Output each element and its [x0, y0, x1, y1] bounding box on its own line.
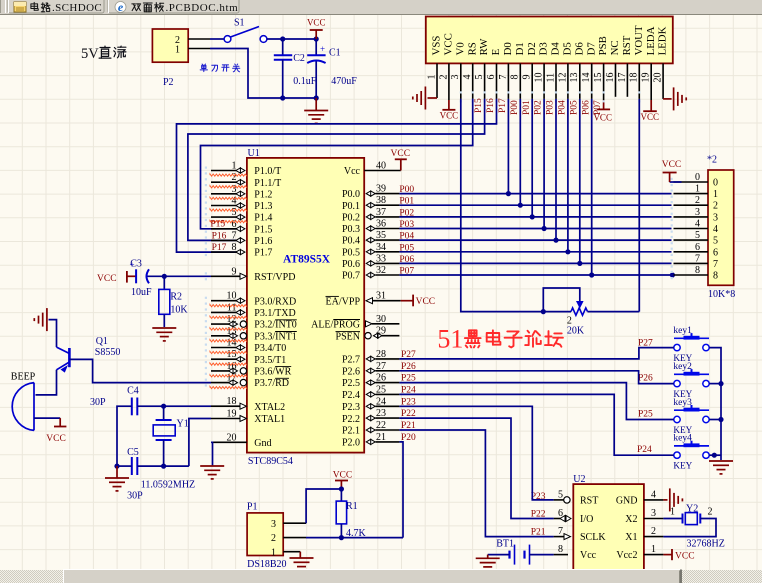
U2 pin 5 stub [554, 499, 568, 501]
junction pot left [541, 309, 546, 314]
svg-text:P0.1: P0.1 [342, 201, 360, 212]
svg-text:2: 2 [695, 195, 700, 206]
capacitor C5 [131, 457, 133, 475]
transistor Q1 S8550 [68, 348, 71, 367]
svg-text:10uF: 10uF [131, 287, 152, 298]
svg-text:RST/VPD: RST/VPD [254, 272, 295, 283]
svg-text:P07: P07 [399, 267, 414, 277]
svg-text:P0.2: P0.2 [342, 213, 360, 224]
svg-text:C1: C1 [329, 48, 341, 59]
LCD pin 19 stub [650, 63, 652, 100]
svg-text:4: 4 [695, 219, 700, 230]
svg-text:VSS: VSS [431, 36, 443, 56]
svg-text:10K: 10K [170, 305, 188, 316]
LCD pin 4 stub [472, 63, 474, 99]
svg-text:3: 3 [450, 75, 461, 80]
svg-text:P05: P05 [399, 243, 414, 253]
wire P07 row from U1 to resistor pack [399, 274, 671, 276]
potentiometer 20K zigzag [571, 308, 588, 315]
svg-text:26: 26 [376, 373, 386, 384]
svg-text:29: 29 [376, 326, 386, 337]
svg-text:Vcc2: Vcc2 [616, 550, 637, 561]
svg-text:P04: P04 [399, 232, 414, 242]
svg-text:P17: P17 [212, 243, 227, 253]
wire P2.1 down and right to cap bottoms [210, 49, 316, 99]
svg-text:key1: key1 [673, 326, 692, 336]
svg-text:P2.4: P2.4 [342, 390, 360, 401]
svg-text:24: 24 [376, 396, 386, 407]
tab2 label text [132, 3, 136, 5]
U2 pin 2 stub [644, 536, 664, 538]
svg-text:20: 20 [227, 432, 237, 443]
tab1 label text [33, 2, 35, 10]
U2 pin 7 stub [554, 536, 568, 538]
junction D5 on row [565, 249, 570, 254]
svg-text:P0.4: P0.4 [342, 236, 360, 247]
svg-text:P03: P03 [546, 100, 556, 115]
junction D2 on row [530, 214, 535, 219]
wire battery to U2 Vcc [530, 554, 554, 556]
svg-text:.PCBDOC.htm: .PCBDOC.htm [166, 2, 239, 14]
svg-text:P1.5: P1.5 [254, 224, 272, 235]
svg-text:5: 5 [474, 75, 485, 80]
wire VCC node to P1 pin3 [306, 489, 341, 523]
svg-text:5: 5 [695, 230, 700, 241]
P2 pin2 stub [188, 38, 210, 40]
wire ground to Q1 collector [49, 320, 57, 348]
svg-text:8: 8 [510, 75, 521, 80]
svg-text:EA/VPP: EA/VPP [326, 296, 361, 307]
svg-text:P17: P17 [498, 98, 508, 113]
U1 pin 18 stub [211, 405, 240, 407]
svg-text:P3.0/RXD: P3.0/RXD [254, 296, 296, 307]
U2 RST bubble [564, 497, 570, 503]
wire U1 P2.5 to key3 [399, 383, 673, 420]
svg-text:R1: R1 [346, 501, 358, 512]
svg-text:D5: D5 [562, 42, 574, 55]
P1 pin1 stub and ground [283, 551, 300, 553]
svg-text:14: 14 [227, 338, 237, 349]
wire P04 row from U1 to resistor pack [399, 239, 671, 241]
svg-text:38: 38 [376, 195, 386, 206]
svg-text:1: 1 [175, 44, 180, 55]
U1 pin 35 stub [366, 238, 375, 243]
svg-text:5V: 5V [81, 46, 99, 62]
MCU U1 box [247, 158, 364, 453]
U2 pin 8 stub [554, 554, 568, 556]
svg-text:13: 13 [569, 73, 580, 83]
connector P1 DS18B20 box [247, 513, 283, 556]
U1 pin 25 stub [366, 392, 375, 397]
svg-text:I/O: I/O [580, 514, 593, 525]
keys right rail wire [709, 348, 721, 460]
wire P2.0 net down to data row [399, 442, 403, 538]
svg-text:C3: C3 [130, 259, 142, 270]
svg-text:1: 1 [695, 184, 700, 195]
svg-text:VCC: VCC [443, 33, 455, 55]
svg-text:E: E [490, 48, 502, 55]
svg-text:S1: S1 [234, 18, 245, 29]
svg-text:P06: P06 [399, 255, 414, 265]
svg-text:35: 35 [376, 230, 386, 241]
svg-text:33: 33 [376, 253, 386, 264]
svg-text:VCC: VCC [97, 274, 117, 284]
U1 pin 21 stub [366, 439, 375, 444]
svg-text:Vcc: Vcc [580, 550, 597, 561]
LCD pin 20 stub [662, 63, 664, 99]
svg-text:9: 9 [522, 75, 533, 80]
svg-text:13: 13 [227, 326, 237, 337]
speaker lower terminal wire [34, 417, 60, 419]
svg-text:8: 8 [713, 271, 718, 282]
svg-text:P2.5: P2.5 [342, 378, 360, 389]
svg-text:1: 1 [232, 161, 237, 172]
U1 pin 8 stub [211, 251, 237, 253]
svg-text:D2: D2 [526, 42, 538, 55]
svg-text:1: 1 [651, 544, 656, 555]
junction VCC node [339, 486, 344, 491]
svg-text:NC: NC [609, 40, 621, 55]
switch S1 [224, 36, 231, 43]
svg-text:P3.4/T0: P3.4/T0 [254, 343, 286, 354]
svg-text:P0.5: P0.5 [342, 247, 360, 258]
U1 pin 30 stub [366, 321, 373, 327]
connector P2 [152, 29, 188, 62]
scrollbar thumb [63, 569, 681, 583]
LCD pin 1 stub [436, 63, 438, 98]
wire U1 P2.7 to key1 [399, 348, 673, 359]
svg-text:4: 4 [462, 75, 473, 80]
svg-text:7: 7 [498, 75, 509, 80]
power port VCC above U1 pin40 [395, 158, 407, 160]
svg-text:1: 1 [713, 189, 718, 200]
svg-text:3: 3 [271, 519, 276, 530]
U1 pin 12 stub [211, 323, 236, 325]
wire Y2 to U2 X1 [663, 519, 716, 537]
svg-text:P3.6/WR: P3.6/WR [254, 367, 291, 378]
svg-text:2: 2 [271, 533, 276, 544]
svg-text:7: 7 [558, 526, 563, 537]
wire P2.2 to switch [210, 38, 224, 40]
capacitor C3 polarized [135, 269, 137, 283]
wire LCD VOUT down to potentiometer right [638, 99, 640, 312]
svg-text:SCLK: SCLK [580, 532, 606, 543]
U1 pin40 wire to VCC [400, 159, 402, 170]
svg-text:8: 8 [695, 265, 700, 276]
wire U1 P2.2 to U2 I/O [399, 418, 553, 518]
wire P01 row from U1 to resistor pack [399, 204, 671, 206]
wire switch to caps top rail [267, 38, 316, 40]
svg-text:P1.1/T: P1.1/T [254, 178, 281, 189]
U2 pin 1 stub [644, 554, 664, 556]
U1 pin 22 stub [366, 427, 375, 432]
svg-text:P0.3: P0.3 [342, 224, 360, 235]
LCD connector box [426, 17, 673, 64]
key4 pushbutton [674, 445, 709, 447]
wire P06 row from U1 to resistor pack [399, 262, 671, 264]
svg-text:P05: P05 [569, 100, 579, 115]
svg-text:10: 10 [227, 291, 237, 302]
svg-text:8: 8 [558, 544, 563, 555]
LCD pin1 wire to left ground [428, 97, 438, 99]
U1 pin 16 stub [211, 370, 236, 372]
svg-text:P0.7: P0.7 [342, 271, 360, 282]
svg-text:12: 12 [557, 73, 568, 83]
svg-text:P3.2/INT0: P3.2/INT0 [254, 320, 296, 331]
svg-text:3: 3 [695, 207, 700, 218]
svg-text:12: 12 [227, 314, 237, 325]
svg-text:P1: P1 [247, 502, 258, 513]
svg-text:P1.7: P1.7 [254, 248, 272, 259]
junction key2 rail [718, 381, 723, 386]
svg-text:VCC: VCC [307, 18, 326, 28]
svg-text:34: 34 [376, 242, 386, 253]
svg-text:LEDA: LEDA [645, 26, 657, 55]
svg-text:C5: C5 [127, 447, 139, 458]
junction key3 rail [718, 417, 723, 422]
svg-text:39: 39 [376, 184, 386, 195]
resistor pack pin stubs and numbers [674, 181, 709, 183]
U1 pin 1 stub [211, 170, 237, 172]
svg-text:30: 30 [376, 314, 386, 325]
U1 pin 26 stub [366, 380, 375, 385]
U1 pin31 EA wire to VCC bar [401, 300, 413, 302]
ground left (Q1 collector) [46, 308, 48, 331]
U2 pin 3 stub [644, 518, 664, 520]
svg-text:7: 7 [232, 230, 237, 241]
U1 pin 40 stub [364, 170, 401, 172]
svg-text:27: 27 [376, 361, 386, 372]
svg-text:P25: P25 [638, 410, 653, 420]
LCD pin20 wire to right ground [663, 98, 672, 100]
ground below C5 left [116, 466, 118, 477]
svg-text:P0.6: P0.6 [342, 259, 360, 270]
capacitor C2 [282, 39, 284, 55]
svg-text:28: 28 [376, 349, 386, 360]
wire P05 row from U1 to resistor pack [399, 251, 671, 253]
U1 pin 23 stub [366, 416, 375, 421]
svg-text:2: 2 [651, 526, 656, 537]
U1 pin 7 stub [211, 239, 237, 241]
svg-text:P06: P06 [581, 100, 591, 115]
ground below battery [476, 557, 500, 559]
svg-text:5: 5 [558, 489, 563, 500]
power port VCC for resistor pack [670, 181, 682, 183]
junction above Y1 [161, 404, 166, 409]
tab 电路.SCHDOC [8, 0, 104, 13]
U1 pin 9 stub [211, 275, 240, 277]
svg-text:32: 32 [376, 265, 386, 276]
svg-text:10: 10 [534, 73, 545, 83]
svg-text:D1: D1 [514, 42, 526, 55]
wire P1 pin2 data row [306, 537, 341, 539]
junction dots bottom rail [280, 95, 285, 100]
svg-text:18: 18 [629, 73, 640, 83]
svg-text:X2: X2 [625, 514, 637, 525]
grid hotspot markers under LCD stubs [460, 91, 462, 93]
svg-text:P02: P02 [399, 208, 414, 218]
svg-text:PSEN: PSEN [336, 331, 360, 342]
U1 pin 13 stub [211, 335, 236, 337]
LCD pin19 VCC power [650, 100, 652, 111]
pot wiper loop wire [543, 288, 580, 312]
wire Q1 base to U1 P3.7 [69, 359, 211, 382]
ground left of LCD [424, 87, 426, 110]
svg-text:P2.3: P2.3 [342, 402, 360, 413]
U2 pin 6 stub [554, 518, 568, 520]
svg-text:P1.6: P1.6 [254, 236, 272, 247]
svg-text:D4: D4 [550, 42, 562, 56]
svg-text:P00: P00 [399, 185, 414, 195]
tab 双面板.PCBDOC.htm [108, 0, 239, 13]
capacitor C1 polarized [315, 39, 317, 55]
svg-text:P01: P01 [399, 197, 414, 207]
switch label dan dao kai guan [201, 64, 204, 65]
U1 pin 33 stub [366, 261, 375, 266]
tab2 IE icon [115, 2, 126, 13]
LCD pin 6 stub [496, 63, 498, 99]
wire Q1 emitter down to speaker [36, 370, 57, 395]
svg-text:19: 19 [641, 73, 652, 83]
ERC squiggles on P3 pins [210, 305, 247, 307]
svg-text:P3.1/TXD: P3.1/TXD [254, 308, 295, 319]
U1 pin 31 stub [366, 298, 373, 304]
LCD pin 16 stub [615, 63, 617, 96]
key3 pushbutton [674, 409, 709, 411]
svg-text:key2: key2 [673, 362, 692, 372]
wire C5 row [117, 465, 132, 467]
svg-text:X1: X1 [625, 532, 637, 543]
svg-text:0: 0 [695, 172, 700, 183]
svg-text:P2.7: P2.7 [342, 355, 360, 366]
U1 pin 36 stub [366, 226, 375, 231]
svg-text:11: 11 [227, 302, 237, 313]
svg-text:6: 6 [713, 247, 718, 258]
svg-text:P3.5/T1: P3.5/T1 [254, 355, 286, 366]
U1 pin 15 stub [211, 358, 237, 360]
svg-text:RST: RST [580, 496, 598, 507]
U1 pin 5 stub [211, 216, 237, 218]
wire C4 right to U1 XTAL2 [137, 405, 211, 407]
junction D6 on row [577, 261, 582, 266]
U1 pin 10 stub [211, 300, 237, 302]
svg-text:2: 2 [708, 507, 713, 518]
svg-text:P1.3: P1.3 [254, 201, 272, 212]
ERC squiggles on unconnected P1 pins [210, 174, 247, 176]
tab bar [0, 0, 762, 15]
U1 pin 2 stub [211, 181, 237, 183]
svg-text:V0: V0 [454, 42, 466, 55]
U1 pin 27 stub [366, 368, 375, 373]
junction D0 on row [506, 191, 511, 196]
junction dots top rail [280, 36, 285, 41]
svg-text:LEDK: LEDK [657, 26, 669, 55]
capacitor C4 [131, 398, 133, 416]
svg-text:7: 7 [695, 253, 700, 264]
wire C4 left down to C5 row [117, 406, 132, 466]
wire pot left terminal [543, 311, 571, 313]
key2 pushbutton [674, 373, 709, 375]
LCD pin 10 stub [543, 63, 545, 99]
svg-text:17: 17 [227, 373, 237, 384]
U1 pin 19 stub [211, 418, 240, 420]
svg-text:20K: 20K [567, 325, 585, 336]
svg-text:R2: R2 [170, 292, 182, 303]
pot wiper arrow [577, 302, 583, 308]
svg-text:4: 4 [651, 489, 656, 500]
svg-text:D6: D6 [573, 42, 585, 56]
svg-text:1: 1 [271, 547, 276, 558]
svg-text:8: 8 [232, 242, 237, 253]
U1 pin 39 stub [366, 191, 375, 196]
svg-text:P1.2: P1.2 [254, 189, 272, 200]
svg-text:P3.3/INT1: P3.3/INT1 [254, 331, 296, 342]
crystal Y2 [663, 518, 682, 520]
ground below keys [709, 460, 733, 462]
junction below Y1 [161, 464, 166, 469]
LCD pin 15 stub [603, 63, 605, 100]
wire P02 row from U1 to resistor pack [399, 216, 671, 218]
svg-text:18: 18 [227, 396, 237, 407]
svg-text:VCC: VCC [391, 149, 411, 159]
power port VCC above C1 [315, 30, 317, 39]
svg-text:D3: D3 [538, 42, 550, 55]
resistor R2 [163, 276, 165, 289]
svg-text:BEEP: BEEP [11, 372, 36, 383]
svg-text:9: 9 [232, 266, 237, 277]
U1 pin 37 stub [366, 214, 375, 219]
svg-text:25: 25 [376, 384, 386, 395]
svg-text:Y1: Y1 [177, 418, 189, 429]
svg-text:16: 16 [227, 361, 237, 372]
grid [21, 15, 23, 570]
wire C3 to U1 RST [148, 275, 212, 277]
power port VCC at U2 Vcc2 [663, 554, 672, 556]
svg-text:1: 1 [426, 75, 437, 80]
svg-text:7: 7 [713, 259, 718, 270]
svg-text:2: 2 [438, 75, 449, 80]
junction D3 on row [542, 226, 547, 231]
svg-text:37: 37 [376, 207, 386, 218]
svg-text:30P: 30P [127, 491, 143, 502]
svg-text:15: 15 [593, 73, 604, 83]
svg-text:P15: P15 [210, 220, 225, 230]
U1 pin 28 stub [366, 356, 375, 361]
svg-text:P01: P01 [522, 100, 532, 115]
svg-text:U1: U1 [248, 148, 260, 159]
svg-text:5: 5 [713, 236, 718, 247]
svg-text:AT89S5X: AT89S5X [283, 254, 331, 266]
LCD pin 2 stub [448, 63, 450, 100]
svg-text:C4: C4 [127, 385, 139, 396]
svg-text:30P: 30P [90, 397, 106, 408]
LCD pin 17 stub [626, 63, 628, 96]
svg-text:RST: RST [621, 35, 633, 55]
svg-text:P2.0: P2.0 [342, 438, 360, 449]
tab1 SCH document icon [14, 2, 26, 12]
svg-text:+: + [320, 44, 325, 54]
svg-text:32768HZ: 32768HZ [687, 538, 725, 549]
svg-text:51: 51 [437, 325, 463, 354]
svg-text:36: 36 [376, 219, 386, 230]
grid hotspot markers near U1 left stubs [205, 167, 207, 169]
svg-text:P2: P2 [163, 77, 174, 88]
svg-text:P24: P24 [637, 445, 652, 455]
svg-text:VCC: VCC [675, 552, 695, 562]
svg-text:PSB: PSB [597, 36, 609, 55]
svg-text:P07: P07 [593, 100, 603, 115]
svg-text:6: 6 [695, 242, 700, 253]
